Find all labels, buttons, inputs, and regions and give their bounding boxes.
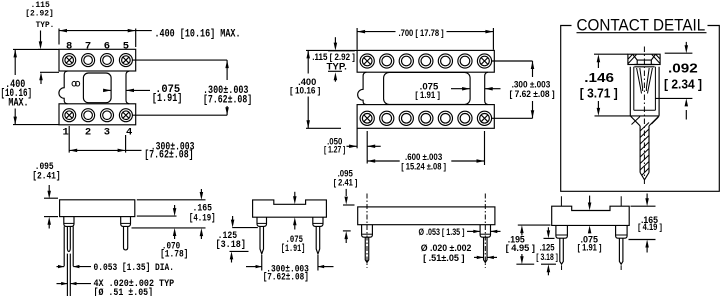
- svg-text:.700 [ 17.78 ]: .700 [ 17.78 ]: [399, 28, 444, 38]
- DIP-14 bottom row contact 5: [438, 111, 452, 125]
- svg-text:7: 7: [85, 41, 91, 53]
- svg-text:MAX.: MAX.: [8, 98, 28, 110]
- svg-text:[2.41]: [2.41]: [32, 170, 61, 182]
- dim .400 [10.16] (DIP-14 width, left): [306, 49, 357, 51]
- svg-text:[3.18]: [3.18]: [216, 239, 246, 251]
- dim .165 [4.19] (body+collar height): [137, 199, 206, 201]
- dim .700 [17.78] (DIP-14 length): [356, 28, 358, 50]
- right pin with taper tip and centerline tick: [484, 237, 488, 262]
- DIP-8 bottom row contact 2: [82, 109, 95, 122]
- svg-text:[ 1.27 ]: [ 1.27 ]: [324, 145, 345, 155]
- dim .300±.003 (end-view row spacing): [261, 255, 263, 271]
- left pin with taper tip and tick: [560, 238, 564, 264]
- DIP-14 top row contact 7: [477, 54, 491, 68]
- left pin: outer sleeve tube: [64, 226, 73, 266]
- DIP-14 bottom row contact 1: [360, 111, 374, 125]
- dim .195 [4.95] (body bottom to pin tip): [518, 224, 551, 226]
- svg-text:.092: .092: [668, 61, 698, 76]
- right pin with taper tip and tick: [619, 238, 623, 264]
- contact collar flange: [628, 54, 660, 64]
- DIP-8 top row contact 2: [82, 54, 95, 67]
- DIP-14 bottom row contact 3: [399, 111, 413, 125]
- sleeve bore bottom: [634, 109, 656, 111]
- DIP-14 center window: [384, 72, 471, 104]
- DIP-14 bottom row contact 7: [477, 111, 491, 125]
- svg-text:0.053 [1.35] DIA.: 0.053 [1.35] DIA.: [94, 262, 175, 274]
- dim .300 ±.003 (DIP-14 row spacing, right): [492, 60, 533, 62]
- contact neck rings: [634, 65, 654, 67]
- DIP-14 side view body: [358, 207, 495, 225]
- dim .075 [1.91] (DIP-14 pillar width): [451, 88, 470, 90]
- DIP-14 right pillar: [485, 72, 488, 104]
- DIP-8 socket top view: top pin band: [59, 49, 136, 71]
- svg-text:.300 ±.003: .300 ±.003: [512, 79, 551, 89]
- svg-text:Ø .053 [ 1.35 ]: Ø .053 [ 1.35 ]: [419, 227, 465, 237]
- dim .075 [1.91] (end-view bar height): [589, 196, 591, 206]
- svg-text:1: 1: [63, 126, 69, 138]
- dim .165 [4.19] (body top to collar bottom): [631, 205, 656, 207]
- svg-text:[ 3.71 ]: [ 3.71 ]: [580, 86, 618, 101]
- svg-text:[7.62±.08]: [7.62±.08]: [263, 272, 309, 284]
- DIP-8 bottom row contact 3: [101, 109, 114, 122]
- contact sleeve inner walls: [634, 67, 656, 110]
- left collar: [257, 217, 267, 226]
- svg-text:[ 2.34 ]: [ 2.34 ]: [664, 77, 702, 92]
- dim .300±.003 (DIP-8 row spacing, right): [133, 59, 228, 61]
- dim .400 [10.16] MAX. (DIP-8 width, top): [58, 29, 60, 45]
- right pin short tail: [124, 226, 128, 250]
- callout 0.053 [1.35] DIA. (sleeve dia): [57, 266, 65, 268]
- DIP-14 bottom row contact 2: [380, 111, 394, 125]
- svg-text:8: 8: [66, 41, 72, 53]
- svg-text:[ .51±.05 ]: [ .51±.05 ]: [423, 253, 464, 263]
- contact detail box border: [561, 26, 720, 192]
- right collar: [313, 217, 323, 226]
- DIP-8 body left pillar with polarity notch: [59, 71, 68, 104]
- DIP-8 body right pillar: [126, 71, 129, 104]
- left pin: inner .020 pin upper part with U end: [67, 226, 70, 251]
- svg-text:[4.19]: [4.19]: [189, 212, 216, 224]
- DIP-14 socket top view: top pin band: [357, 50, 494, 72]
- DIP-14 bottom pin band: [357, 105, 494, 129]
- DIP-8 bottom pin band: [59, 104, 136, 125]
- right pin with pointed tip: [316, 226, 320, 254]
- machined contact: centerline: [643, 47, 645, 187]
- svg-text:5: 5: [123, 41, 129, 53]
- dim .070 [1.78] (collar height): [137, 215, 177, 217]
- DIP-8 top row contact 4: [119, 54, 132, 67]
- DIP-8 bottom row contact 4: [119, 109, 132, 122]
- DIP-14 end view body: blocks and bar: [552, 206, 630, 225]
- svg-text:.146: .146: [584, 70, 614, 85]
- contact sleeve outer walls: [630, 67, 659, 116]
- DIP-14 top row contact 6: [458, 54, 472, 68]
- left pin with taper tip and centerline tick: [365, 237, 369, 262]
- DIP-14 left pillar with notch: [358, 72, 367, 104]
- svg-text:[Ø .51 ±.05]: [Ø .51 ±.05]: [94, 287, 154, 296]
- svg-text:[ 7.62 ±.08 ]: [ 7.62 ±.08 ]: [510, 89, 555, 99]
- right pin collar: [121, 217, 131, 227]
- svg-text:.400 [10.16] MAX.: .400 [10.16] MAX.: [155, 29, 241, 41]
- svg-text:3: 3: [104, 126, 110, 138]
- svg-text:[1.78]: [1.78]: [160, 249, 188, 261]
- svg-text:TYP.: TYP.: [327, 61, 347, 71]
- DIP-14 top row contact 1: [360, 54, 374, 68]
- dim .075 [1.91] (DIP-8 pillar width): [104, 89, 112, 91]
- left collar: [556, 225, 568, 238]
- svg-text:[ 15.24 ±.08 ]: [ 15.24 ±.08 ]: [401, 161, 446, 171]
- right collar: [616, 225, 628, 238]
- dim .146 [3.71] (contact length): [594, 53, 628, 55]
- dim .400 [10.16] MAX. (DIP-8 height, left): [13, 48, 59, 50]
- dim .600 ±.003 (DIP-14 pin 1-7 span): [484, 131, 486, 165]
- svg-text:Ø .020 ±.002: Ø .020 ±.002: [421, 243, 472, 253]
- callout 4X .020±.002 TYP (pin dia): [57, 283, 68, 285]
- DIP-14 bottom row contact 6: [458, 111, 472, 125]
- left pin with pointed tip: [260, 226, 264, 254]
- svg-text:[ 4.95 ]: [ 4.95 ]: [506, 243, 535, 253]
- svg-text:[ 2.41 ]: [ 2.41 ]: [334, 178, 358, 188]
- DIP-14 top row contact 2: [380, 54, 394, 68]
- svg-text:[7.62±.08]: [7.62±.08]: [203, 94, 252, 106]
- DIP-8 center window: [83, 73, 111, 103]
- svg-text:[1.91]: [1.91]: [281, 243, 305, 255]
- svg-text:[ 1.91 ]: [ 1.91 ]: [578, 243, 602, 253]
- svg-text:[ 4.19 ]: [ 4.19 ]: [638, 222, 662, 232]
- svg-text:[ 3.18 ]: [ 3.18 ]: [536, 252, 558, 262]
- svg-text:[ 10.16 ]: [ 10.16 ]: [290, 86, 320, 96]
- DIP-14 top row contact 3: [399, 54, 413, 68]
- hatched solder tail: [640, 126, 649, 173]
- DIP-14 top row contact 5: [438, 54, 452, 68]
- svg-text:4: 4: [126, 126, 132, 138]
- left pin collar: [64, 217, 74, 227]
- svg-text:6: 6: [104, 41, 110, 53]
- svg-text:CONTACT DETAIL: CONTACT DETAIL: [577, 15, 706, 34]
- molded "8" marking rotated (drawn as two rings): [72, 81, 76, 86]
- dim .300±.003 (DIP-8 pin 1-4 span, bottom): [68, 126, 70, 153]
- taper to tail: [630, 116, 659, 126]
- DIP-8 top row contact 1: [63, 54, 76, 67]
- DIP-8 side view body: [60, 200, 135, 217]
- contact spring fingers: [637, 68, 653, 90]
- dim .125 [3.18] (pin exposed length): [232, 227, 258, 229]
- DIP-14 top row contact 4: [419, 54, 433, 68]
- dim .075 [1.91] (end-view bar height): [294, 192, 296, 199]
- dim .092 [2.34] (contact entry depth): [665, 52, 693, 54]
- dim .125 [3.18] (collar bottom to pin tip): [544, 237, 555, 239]
- DIP-14 bottom row contact 4: [419, 111, 433, 125]
- svg-text:[2.92]: [2.92]: [25, 9, 54, 19]
- DIP-8 end view body: left block, bar, right block: [253, 200, 327, 217]
- svg-text:[ 1.91 ]: [ 1.91 ]: [415, 90, 440, 100]
- pin centerlines above body: [561, 196, 621, 206]
- svg-text:2: 2: [85, 126, 91, 138]
- left collar: [362, 225, 373, 238]
- DIP-8 top row contact 3: [101, 54, 114, 67]
- left pin: inner .020 pin lower part: [67, 254, 70, 296]
- svg-text:[7.62±.08]: [7.62±.08]: [144, 149, 193, 161]
- dim .050 [1.27] (DIP-14 end margin): [356, 128, 358, 148]
- DIP-8 bottom row contact 1: [63, 109, 76, 122]
- svg-text:[1.91]: [1.91]: [152, 93, 183, 105]
- right collar: [480, 225, 490, 238]
- sleeve bottom: [630, 115, 659, 117]
- svg-text:TYP.: TYP.: [36, 20, 55, 30]
